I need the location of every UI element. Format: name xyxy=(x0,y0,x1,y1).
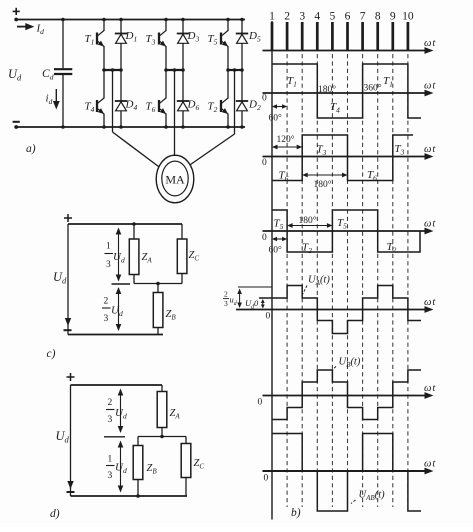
svg-text:0: 0 xyxy=(262,94,267,104)
svg-text:ωt: ωt xyxy=(424,383,436,394)
wire top DC rail xyxy=(16,19,245,21)
svg-text:ωt: ωt xyxy=(424,38,436,49)
svg-text:8: 8 xyxy=(375,11,381,23)
dimension arrow 120 row3 xyxy=(272,134,302,149)
wire top rail d xyxy=(71,384,163,386)
node leg 1 rail junctions xyxy=(102,18,123,129)
svg-text:180°: 180° xyxy=(299,215,317,226)
node minus terminal xyxy=(13,122,20,129)
svg-text:60°: 60° xyxy=(269,245,283,256)
impedance ZB xyxy=(153,284,176,335)
svg-text:c): c) xyxy=(47,348,56,360)
wire phase output C xyxy=(191,70,235,165)
svg-text:1: 1 xyxy=(269,11,275,23)
label Ud0 and arrow row5 xyxy=(245,298,265,311)
svg-text:3: 3 xyxy=(299,11,305,23)
svg-text:1: 1 xyxy=(108,455,113,465)
wire waveform UB xyxy=(272,370,421,420)
wire waveform UAB xyxy=(272,434,421,512)
wire bottom DC rail xyxy=(16,126,245,128)
impedance ZB d xyxy=(133,437,157,498)
svg-text:4: 4 xyxy=(314,11,320,23)
wire top rail c xyxy=(68,223,182,225)
svg-text:9: 9 xyxy=(390,11,396,23)
wire bottom rail d xyxy=(71,495,188,497)
wire phase output A xyxy=(113,70,159,167)
node minus terminal d xyxy=(67,491,75,493)
svg-text:2: 2 xyxy=(224,290,228,299)
svg-text:2: 2 xyxy=(108,398,113,408)
wire waveform T3 T6 xyxy=(272,135,413,181)
wire time origin boundary xyxy=(271,21,273,520)
svg-text:60°: 60° xyxy=(269,113,283,124)
svg-text:3: 3 xyxy=(224,299,228,308)
node neutral level mark d xyxy=(104,436,125,438)
impedance ZA xyxy=(129,224,152,284)
svg-text:0: 0 xyxy=(266,312,271,322)
wire waveform UA xyxy=(259,286,421,334)
wire axis row5 xyxy=(236,297,436,322)
transistor T6 xyxy=(146,70,167,127)
node leg 3 rail junctions xyxy=(226,18,244,129)
svg-text:2: 2 xyxy=(104,297,109,307)
node Cd bottom junction xyxy=(61,125,65,129)
svg-text:3: 3 xyxy=(108,471,113,481)
svg-text:180°: 180° xyxy=(318,84,336,95)
wire axis row7 xyxy=(263,459,437,484)
wire phase midpoint leg 2 xyxy=(164,68,185,72)
diode D4 xyxy=(115,70,138,127)
dimension arrow two-thirds Ud d xyxy=(106,389,127,434)
svg-text:3: 3 xyxy=(106,260,111,270)
transistor T3 xyxy=(146,20,167,71)
wire neutral node c xyxy=(134,282,182,286)
dimension arrow 180 row4 xyxy=(287,215,332,228)
svg-text:5: 5 xyxy=(330,11,336,23)
wire axis row3 xyxy=(262,144,436,168)
grid dashed xyxy=(287,54,408,507)
wire waveform T1 T4 xyxy=(272,64,421,118)
wire left source branch c xyxy=(65,224,71,335)
impedance ZC d xyxy=(181,437,204,497)
svg-text:120°: 120° xyxy=(277,134,295,145)
wire bottom rail c xyxy=(68,334,163,336)
label UAB(t) xyxy=(351,490,385,504)
svg-text:6: 6 xyxy=(345,11,351,23)
wire axis row1 xyxy=(263,38,437,54)
current arrow id xyxy=(46,89,60,110)
diode D2 xyxy=(236,70,261,127)
svg-text:10: 10 xyxy=(402,11,414,23)
transistor T1 xyxy=(85,20,105,71)
diode D1 xyxy=(115,20,137,71)
transistor T4 xyxy=(85,70,105,127)
impedance ZA d xyxy=(157,385,180,437)
svg-text:3: 3 xyxy=(108,415,113,425)
svg-text:180°: 180° xyxy=(314,179,332,190)
svg-text:0: 0 xyxy=(258,398,263,408)
svg-text:d): d) xyxy=(50,508,60,520)
node leg 2 rail junctions xyxy=(164,18,185,129)
impedance ZC xyxy=(177,224,199,284)
wire axis row4 xyxy=(262,219,436,244)
node plus terminal xyxy=(13,8,20,22)
diode D6 xyxy=(177,70,200,127)
svg-text:0: 0 xyxy=(262,158,267,168)
label UB(t) xyxy=(332,357,361,371)
wire phase midpoint leg 3 xyxy=(226,68,244,72)
svg-text:3: 3 xyxy=(104,314,109,324)
node neutral level mark c xyxy=(112,283,131,285)
node plus terminal c xyxy=(64,214,72,222)
svg-text:UA(t): UA(t) xyxy=(308,275,330,288)
svg-text:ωt: ωt xyxy=(424,81,436,92)
svg-text:2: 2 xyxy=(284,11,290,23)
motor MA xyxy=(156,155,194,203)
wire left source branch d xyxy=(67,385,73,496)
wire axis row6 xyxy=(258,383,437,408)
node plus terminal d xyxy=(67,373,75,381)
node ZA top junction xyxy=(132,222,136,226)
node Cd top junction xyxy=(61,18,65,22)
wire phase output B xyxy=(174,70,176,156)
wire phase midpoint leg 1 xyxy=(102,68,123,72)
node two-thirds level mark row5 xyxy=(238,286,272,288)
dimension arrow 60 row2 xyxy=(269,104,288,123)
svg-text:1: 1 xyxy=(106,242,111,252)
node timing ticks 1-10 xyxy=(269,11,414,51)
label UA(t) xyxy=(303,275,331,295)
diode D3 xyxy=(177,20,200,71)
dimension arrow two-thirds Ud c xyxy=(102,287,123,331)
capacitor Cd xyxy=(42,20,72,128)
transistor T2 xyxy=(208,70,229,127)
wire waveform T5 T2 xyxy=(272,210,420,252)
svg-text:b): b) xyxy=(291,507,301,519)
svg-text:0: 0 xyxy=(262,233,267,243)
svg-text:ωt: ωt xyxy=(424,219,436,230)
dimension arrow one-third Ud c xyxy=(105,228,125,282)
dimension arrow one-third Ud d xyxy=(106,441,127,493)
svg-text:a): a) xyxy=(26,143,36,155)
wire neutral node d xyxy=(138,435,186,439)
svg-text:MA: MA xyxy=(165,173,185,187)
transistor T5 xyxy=(208,20,229,71)
svg-text:ωt: ωt xyxy=(424,459,436,470)
svg-text:0: 0 xyxy=(264,474,269,484)
svg-text:UB(t): UB(t) xyxy=(339,357,361,370)
svg-text:ωt: ωt xyxy=(424,144,436,155)
svg-text:360°: 360° xyxy=(364,83,382,94)
dimension arrow two-thirds ud row5 xyxy=(223,289,242,309)
wire axis row2 xyxy=(262,81,436,104)
svg-text:7: 7 xyxy=(360,11,366,23)
svg-text:ωt: ωt xyxy=(424,297,436,308)
dimension arrow 60 row4 xyxy=(269,237,288,256)
node minus terminal c xyxy=(64,329,72,331)
dimension arrow 180 row3 xyxy=(302,173,347,190)
diode D5 xyxy=(236,20,261,71)
current arrow Id xyxy=(17,23,44,37)
